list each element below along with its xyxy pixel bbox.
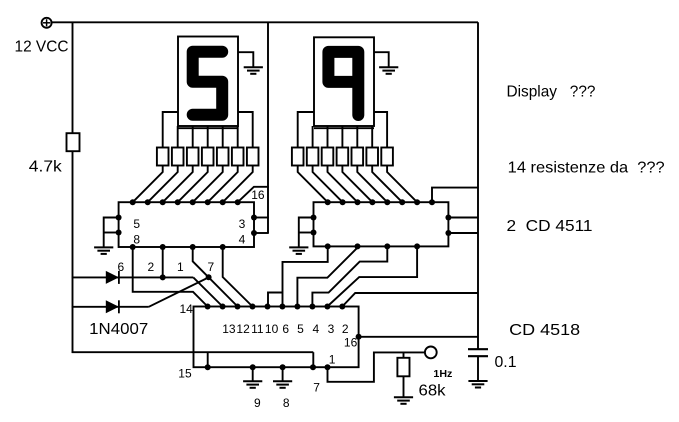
wire U2 pin7 to U3 xyxy=(327,246,417,306)
node U3 bottom pin xyxy=(325,364,331,370)
node U2 top pin 6 xyxy=(399,199,405,205)
node U1 bottom pin xyxy=(130,244,136,250)
svg-text:5: 5 xyxy=(297,322,304,336)
wire R16 to ground xyxy=(403,376,405,397)
node U1 pin5 xyxy=(116,215,122,221)
ground U2 xyxy=(289,247,308,254)
svg-text:6: 6 xyxy=(282,322,289,336)
resistor R10 segment xyxy=(307,148,319,166)
resistor R7 segment xyxy=(232,148,244,166)
label 5 of U1 xyxy=(133,217,140,231)
svg-text:8: 8 xyxy=(283,396,290,410)
label 10 of U3 xyxy=(265,322,279,336)
node U1 top pin 6 xyxy=(205,199,211,205)
wire U1 ground bracket xyxy=(104,218,119,248)
op-chip U2 CD4511 body xyxy=(314,202,449,246)
label 4 of U1 xyxy=(239,233,246,247)
node U2 bottom pin xyxy=(355,243,361,249)
node U3 bottom pin xyxy=(250,364,256,370)
wire U3 pin1 to clock xyxy=(328,352,425,381)
wire R9 to U2 pin xyxy=(298,166,328,203)
svg-text:3: 3 xyxy=(328,322,335,336)
terminal clock input xyxy=(425,347,437,359)
display DS2 body xyxy=(314,37,374,126)
node U2 pin4 xyxy=(445,230,451,236)
svg-text:5: 5 xyxy=(133,217,140,231)
label 2 CD 4511 xyxy=(507,218,593,235)
label 6 of U1 xyxy=(118,260,125,274)
svg-text:2: 2 xyxy=(148,260,155,274)
wire U3 pin9 ground stem xyxy=(252,367,254,381)
label 1N4007 xyxy=(89,321,148,338)
label 8 of U3 xyxy=(283,396,290,410)
ground R16 xyxy=(394,397,413,404)
op-chip U1 CD4511 body xyxy=(119,202,254,247)
wire D1 to U3 diagonal xyxy=(193,277,222,306)
node U1 top pin 4 xyxy=(175,199,181,205)
wire R13 to U2 pin xyxy=(357,166,387,203)
svg-text:2: 2 xyxy=(342,322,349,336)
wire DS1 pin to R2 xyxy=(163,112,178,148)
wire DS2 pin to R11 xyxy=(327,126,329,148)
wire DS1 pin to R5 xyxy=(207,126,209,148)
node U1 bottom pin xyxy=(220,244,226,250)
label 3 of U1 xyxy=(239,217,246,231)
wire top +12V rail xyxy=(52,21,478,23)
wire DS1 common tap xyxy=(238,52,253,67)
node U2 pin5 xyxy=(311,215,317,221)
wire bottom-left to CD4518 xyxy=(72,351,314,353)
label 9 of U3 xyxy=(254,396,261,410)
wire C1 to ground xyxy=(477,356,479,381)
wire D2 to node A diagonal xyxy=(149,277,209,306)
node U1 top pin 1 xyxy=(130,199,136,205)
wire left rail upper xyxy=(72,22,74,134)
svg-text:14 resistenze da ???: 14 resistenze da ??? xyxy=(508,160,665,177)
node U3 top pin 4 xyxy=(250,304,256,310)
node U3 top pin 3 xyxy=(235,304,241,310)
wire R8 to U1 pin xyxy=(223,166,253,203)
resistor R5 segment xyxy=(202,148,214,166)
resistor R12 segment xyxy=(337,148,349,166)
display DS1 pin strip xyxy=(178,127,238,129)
wire U1 pin1 to U3 xyxy=(193,247,238,307)
svg-text:15: 15 xyxy=(178,367,192,381)
label 4.7k xyxy=(29,158,63,175)
svg-text:7: 7 xyxy=(313,381,320,395)
wire R11 to U2 pin xyxy=(328,166,358,203)
power terminal +12V xyxy=(42,18,52,28)
wire R15 to U2 pin xyxy=(387,166,417,203)
svg-text:9: 9 xyxy=(254,396,261,410)
wire DS2 pin to R13 xyxy=(356,126,358,148)
svg-text:12 VCC: 12 VCC xyxy=(15,39,69,56)
resistor R9 segment xyxy=(292,148,304,166)
svg-text:10: 10 xyxy=(265,322,279,336)
wire U1 pin16 diagonal xyxy=(238,187,269,202)
wire DS1 pin to R4 xyxy=(192,126,194,148)
label 11 of U3 xyxy=(251,322,264,336)
node U1 pin8 xyxy=(116,230,122,236)
node U2 bottom pin xyxy=(384,243,390,249)
wire R14 to U2 pin xyxy=(372,166,402,203)
svg-text:16: 16 xyxy=(251,188,265,202)
label 4 of U3 xyxy=(312,322,319,336)
node U2 top pin 8 xyxy=(429,199,435,205)
diode D2 1N4007 xyxy=(106,300,119,313)
wire U1 pin3 xyxy=(254,217,269,219)
label Display ??? xyxy=(507,84,596,101)
wire branch U1 Vcc vertical xyxy=(267,22,269,234)
node U2 top pin 7 xyxy=(414,199,420,205)
wire R2 to U1 pin xyxy=(133,166,163,203)
svg-text:4: 4 xyxy=(239,233,246,247)
display DS2 pin strip xyxy=(314,127,374,129)
wire R10 to U2 pin xyxy=(313,166,343,203)
label 15 of U3 xyxy=(178,367,192,381)
svg-text:1: 1 xyxy=(177,260,184,274)
node U3 top pin 8 xyxy=(309,304,315,310)
node U1 pin3 xyxy=(251,215,257,221)
node U2 bottom pin xyxy=(414,243,420,249)
label 16 of U1 xyxy=(251,188,265,202)
label 1 of U1 xyxy=(177,260,184,274)
wire R12 to U2 pin xyxy=(342,166,372,203)
wire U2 pin4 to rail xyxy=(448,232,478,234)
resistor R11 segment xyxy=(322,148,334,166)
svg-text:7: 7 xyxy=(208,260,215,274)
wire U2 ground bracket xyxy=(299,218,314,248)
resistor R2 segment xyxy=(157,148,169,166)
resistor R1 4.7k xyxy=(67,133,80,151)
svg-text:1Hz: 1Hz xyxy=(433,369,452,380)
svg-text:1N4007: 1N4007 xyxy=(89,321,148,338)
wire R7 to U1 pin xyxy=(208,166,238,203)
wire R5 to U1 pin xyxy=(178,166,208,203)
wire DS1 pin to R6 xyxy=(222,126,224,148)
label 1 of U3 xyxy=(329,353,336,367)
label 8 of U1 xyxy=(133,233,140,247)
ground DS2 xyxy=(379,67,398,74)
node U3 bottom pin xyxy=(310,364,316,370)
node U2 top pin 2 xyxy=(340,199,346,205)
wire diode D1 line xyxy=(72,276,194,278)
svg-text:13: 13 xyxy=(222,322,236,336)
resistor R16 68k xyxy=(397,358,409,377)
node U2 top pin 1 xyxy=(325,199,331,205)
wire left rail lower xyxy=(72,151,74,353)
svg-text:16: 16 xyxy=(344,335,358,349)
node U2 pin8 xyxy=(311,230,317,236)
label 7 of U3 xyxy=(313,381,320,395)
node U1 bottom pin xyxy=(190,244,196,250)
ground DS1 xyxy=(244,67,263,74)
label 2 of U1 xyxy=(148,260,155,274)
resistor R16 68k stem xyxy=(403,352,405,357)
wire R4 to U1 pin xyxy=(163,166,193,203)
label 3 of U3 xyxy=(328,322,335,336)
node U2 top pin 5 xyxy=(384,199,390,205)
ground U3 pin9 xyxy=(243,381,262,388)
label 16 of U3 xyxy=(344,335,358,349)
svg-text:1: 1 xyxy=(329,353,336,367)
wire U1 pin6 to U3 xyxy=(133,247,208,307)
node A junction xyxy=(206,274,212,280)
label 68k xyxy=(419,383,447,400)
wire U2 pin2 to U3 xyxy=(297,246,357,306)
node U3 top pin 5 xyxy=(265,304,271,310)
resistor R8 segment xyxy=(247,148,259,166)
resistor R15 segment xyxy=(381,148,393,166)
svg-text:Display ???: Display ??? xyxy=(507,84,596,101)
svg-text:CD 4518: CD 4518 xyxy=(509,322,580,339)
svg-text:4: 4 xyxy=(312,322,319,336)
counter U3 CD4518 body xyxy=(194,307,359,368)
node U3 top pin 6 xyxy=(279,304,285,310)
label CD 4518 xyxy=(509,322,580,339)
node U1 pin4 xyxy=(251,230,257,236)
label 14 of U3 xyxy=(180,302,194,316)
wire U3 pin8 ground stem xyxy=(282,367,284,381)
svg-text:2 CD 4511: 2 CD 4511 xyxy=(507,218,593,235)
wire DS1 pin to R8 xyxy=(238,112,253,148)
label 2 of U3 xyxy=(342,322,349,336)
ground U1 xyxy=(94,247,113,254)
node U3 top pin 10 xyxy=(339,304,345,310)
wire U3 enable to rail xyxy=(342,293,478,307)
wire U2 pin1 to U3 xyxy=(312,246,387,306)
node U2 top pin 3 xyxy=(355,199,361,205)
node U2 bottom pin xyxy=(325,243,331,249)
wire DS2 pin to R12 xyxy=(341,126,343,148)
display DS1 body xyxy=(178,37,238,127)
wire U2 pin6 to U3 xyxy=(283,246,328,306)
label 7 of U1 xyxy=(208,260,215,274)
node U3 top pin 1 xyxy=(205,304,211,310)
wire DS2 common tap xyxy=(374,52,389,67)
diode D1 1N4007 xyxy=(106,271,119,284)
wire U1 pin2 stub xyxy=(162,247,164,277)
label 14 resistenze da ??? xyxy=(508,160,665,177)
svg-text:0.1: 0.1 xyxy=(495,354,517,371)
wire right +12V rail xyxy=(477,22,479,349)
resistor R14 segment xyxy=(366,148,378,166)
node U1 top pin 3 xyxy=(160,199,166,205)
wire DS1 pin to R3 xyxy=(177,126,179,148)
wire DS2 pin to R15 xyxy=(374,112,387,148)
wire U3 pin16 to rail xyxy=(359,336,478,338)
label 12 of U3 xyxy=(236,322,250,336)
node U3 bottom pin xyxy=(205,364,211,370)
wire DS2 pin to R10 xyxy=(312,126,314,148)
svg-text:3: 3 xyxy=(239,217,246,231)
wire U2 pin16 to rail xyxy=(432,188,478,203)
wire DS2 pin to R9 xyxy=(298,112,314,148)
node U3 bottom pin xyxy=(280,364,286,370)
node junction pin2-D1 xyxy=(160,274,166,280)
label 13 of U3 xyxy=(222,322,236,336)
node U3 top pin 9 xyxy=(324,304,330,310)
svg-text:4.7k: 4.7k xyxy=(29,158,63,175)
node U2 pin3 xyxy=(445,215,451,221)
label 5 of U3 xyxy=(297,322,304,336)
capacitor C1 0.1 xyxy=(468,349,488,356)
ground C1 xyxy=(468,381,487,388)
wire step to U3 dot5 xyxy=(268,293,283,307)
resistor R3 segment xyxy=(172,148,184,166)
wire jog to pin dot xyxy=(312,352,314,367)
node U3 top pin 7 xyxy=(294,304,300,310)
node U1 top pin 5 xyxy=(190,199,196,205)
wire R3 to U1 pin xyxy=(148,166,178,203)
wire DS2 pin to R14 xyxy=(371,126,373,148)
label 1Hz xyxy=(433,369,452,380)
node U3 pin16 xyxy=(356,334,362,340)
label 0.1 xyxy=(495,354,517,371)
svg-text:11: 11 xyxy=(251,322,264,336)
resistor R4 segment xyxy=(187,148,199,166)
display DS1 digit 5 xyxy=(193,52,223,115)
resistor R13 segment xyxy=(352,148,364,166)
wire U2 pin3 to rail xyxy=(448,217,478,219)
display DS2 digit 9 xyxy=(328,52,358,115)
wire R6 to U1 pin xyxy=(193,166,223,203)
svg-text:8: 8 xyxy=(133,233,140,247)
svg-text:12: 12 xyxy=(236,322,250,336)
node U1 top pin 2 xyxy=(145,199,151,205)
node U1 top pin 7 xyxy=(220,199,226,205)
node U1 bottom pin xyxy=(160,244,166,250)
node U3 top pin 2 xyxy=(220,304,226,310)
wire U1 pin7 to U3 xyxy=(223,247,253,307)
node U1 top pin 8 xyxy=(235,199,241,205)
wire stub pin15 area xyxy=(207,352,209,367)
node U2 top pin 4 xyxy=(369,199,375,205)
wire DS1 pin to R7 xyxy=(237,126,239,148)
wire U1 pin4 xyxy=(254,232,269,234)
label 6 of U3 xyxy=(282,322,289,336)
wire diode D2 line xyxy=(72,306,149,308)
ground U3 pin8 xyxy=(273,381,292,388)
svg-text:68k: 68k xyxy=(419,383,447,400)
resistor R6 segment xyxy=(217,148,229,166)
svg-text:14: 14 xyxy=(180,302,194,316)
label 12 VCC xyxy=(15,39,69,56)
